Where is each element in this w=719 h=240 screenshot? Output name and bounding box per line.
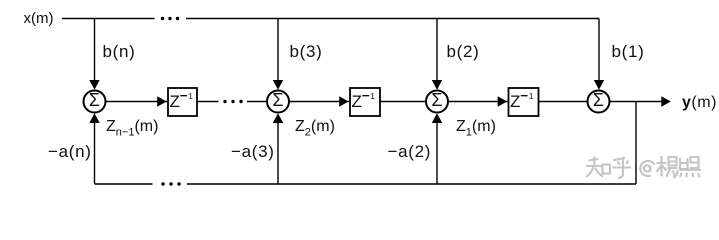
svg-text:Σ: Σ xyxy=(89,90,100,110)
svg-text:b(n): b(n) xyxy=(103,42,136,61)
svg-text:1: 1 xyxy=(529,91,534,101)
svg-text:−a(2): −a(2) xyxy=(388,142,432,161)
svg-text:Z: Z xyxy=(352,92,362,111)
svg-text:Σ: Σ xyxy=(272,90,283,110)
svg-text:x(m): x(m) xyxy=(24,10,54,27)
svg-text:1: 1 xyxy=(188,91,193,101)
svg-text:−a(3): −a(3) xyxy=(231,142,275,161)
svg-text:−a(n): −a(n) xyxy=(48,142,92,161)
svg-text:1: 1 xyxy=(370,91,375,101)
svg-text:Z: Z xyxy=(170,92,180,111)
svg-text:y(m): y(m) xyxy=(682,94,717,111)
svg-text:Z: Z xyxy=(510,92,520,111)
svg-text:Σ: Σ xyxy=(593,90,604,110)
svg-text:Σ: Σ xyxy=(431,90,442,110)
svg-text:b(1): b(1) xyxy=(612,42,645,61)
svg-text:b(2): b(2) xyxy=(447,42,480,61)
svg-text:b(3): b(3) xyxy=(290,42,323,61)
